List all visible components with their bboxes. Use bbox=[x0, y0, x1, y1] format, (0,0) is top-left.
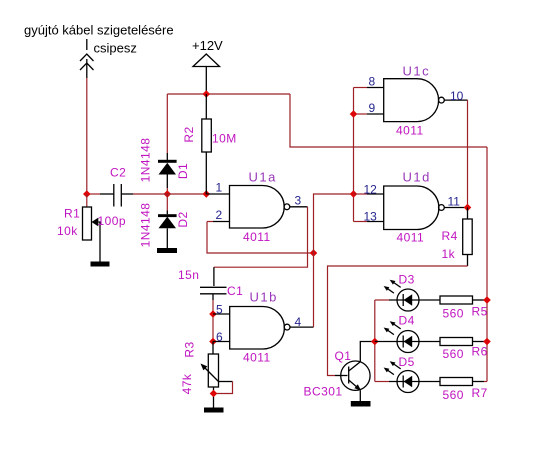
LED D4 bbox=[375, 321, 440, 352]
svg-text:csipesz: csipesz bbox=[94, 41, 137, 56]
svg-text:1N4148: 1N4148 bbox=[139, 138, 153, 183]
svg-text:15n: 15n bbox=[178, 268, 199, 282]
wire bbox=[166, 188, 168, 194]
pin 10 bbox=[444, 99, 467, 101]
potentiometer R3 47k bbox=[201, 342, 233, 408]
svg-text:1: 1 bbox=[216, 181, 223, 195]
wire: node to R2/U1a bbox=[133, 193, 206, 195]
wire: collector to LED cathode column bbox=[372, 341, 375, 343]
svg-text:11: 11 bbox=[448, 195, 461, 209]
svg-text:D2: D2 bbox=[176, 211, 190, 227]
wire: right-side +12V rail vertical bbox=[486, 147, 488, 382]
resistor R7 560 bbox=[440, 378, 487, 386]
junction R3 wiper bbox=[210, 390, 218, 398]
svg-text:U1c: U1c bbox=[403, 64, 431, 79]
resistor R5 560 bbox=[440, 296, 487, 304]
power +12V supply symbol bbox=[192, 38, 223, 94]
ground (R1 wiper) bbox=[91, 262, 110, 267]
svg-text:560: 560 bbox=[443, 347, 464, 361]
capacitor C2 100p bbox=[100, 184, 133, 207]
ground (D2) bbox=[157, 248, 177, 253]
svg-text:4: 4 bbox=[295, 315, 302, 329]
svg-text:560: 560 bbox=[443, 307, 464, 321]
svg-text:10M: 10M bbox=[212, 132, 237, 146]
junction pin 9 bbox=[350, 110, 358, 118]
svg-text:13: 13 bbox=[364, 210, 378, 224]
svg-text:D5: D5 bbox=[399, 355, 415, 369]
wire: input node horizontal bbox=[87, 193, 100, 195]
pin 4 bbox=[290, 326, 314, 328]
svg-text:5: 5 bbox=[216, 303, 223, 317]
ground (R3) bbox=[204, 408, 224, 413]
svg-text:4011: 4011 bbox=[397, 231, 425, 245]
svg-text:C2: C2 bbox=[110, 166, 126, 180]
ground (Q1 emitter) bbox=[351, 401, 371, 407]
svg-text:R1: R1 bbox=[64, 207, 80, 221]
pin 11 bbox=[444, 207, 467, 209]
junction pin11/R4 bbox=[464, 204, 472, 212]
svg-text:12: 12 bbox=[364, 182, 378, 196]
wire: C1 to U1b inputs bbox=[212, 300, 214, 342]
svg-text:47k: 47k bbox=[180, 373, 194, 394]
resistor R6 560 bbox=[440, 338, 487, 346]
pin 5 bbox=[213, 313, 230, 315]
svg-text:3: 3 bbox=[295, 194, 302, 208]
svg-text:10: 10 bbox=[450, 89, 464, 103]
pin 9 bbox=[354, 113, 368, 115]
svg-text:Q1: Q1 bbox=[335, 349, 352, 363]
svg-text:2: 2 bbox=[216, 208, 223, 222]
svg-text:R4: R4 bbox=[442, 229, 458, 243]
svg-text:D1: D1 bbox=[176, 163, 190, 179]
svg-text:R3: R3 bbox=[183, 341, 197, 357]
svg-text:U1d: U1d bbox=[403, 170, 431, 185]
svg-text:100p: 100p bbox=[98, 214, 127, 228]
svg-text:BC301: BC301 bbox=[304, 385, 343, 399]
svg-text:gyújtó kábel szigetelésére: gyújtó kábel szigetelésére bbox=[24, 23, 174, 38]
LED D5 bbox=[375, 361, 440, 392]
resistor R2 10M bbox=[202, 94, 212, 194]
svg-text:4011: 4011 bbox=[243, 350, 271, 364]
pin 1 bbox=[206, 193, 229, 195]
svg-text:R7: R7 bbox=[472, 386, 488, 400]
wire: U1c/U1d tied inputs vertical bbox=[353, 88, 355, 222]
wire: U1a pin3 to C1 bbox=[214, 207, 308, 267]
svg-text:C1: C1 bbox=[227, 284, 243, 298]
junction node D1/D2 bbox=[164, 190, 172, 198]
diode D2 1N4148 bbox=[158, 194, 177, 248]
svg-text:1k: 1k bbox=[442, 247, 456, 261]
junction R6/rail bbox=[483, 338, 491, 346]
diode D1 1N4148 bbox=[158, 160, 177, 188]
svg-text:D3: D3 bbox=[399, 273, 415, 287]
pin 8 bbox=[354, 87, 368, 89]
pin 6 bbox=[213, 341, 230, 343]
junction at clip/R1/C2 bbox=[83, 190, 91, 198]
clip (csipesz) pickup symbol bbox=[80, 39, 94, 78]
junction collector/LEDs bbox=[371, 338, 379, 346]
svg-text:10k: 10k bbox=[57, 224, 78, 238]
wire: U1a pin2 feedback bbox=[207, 222, 314, 254]
svg-text:U1a: U1a bbox=[249, 170, 277, 185]
wire: +12V rail horizontal bbox=[167, 93, 290, 95]
potentiometer R1 10k bbox=[83, 194, 101, 262]
op NAND gate U1d bbox=[384, 186, 445, 230]
svg-text:9: 9 bbox=[369, 101, 376, 115]
junction pin 12 bbox=[350, 190, 358, 198]
svg-text:8: 8 bbox=[369, 74, 376, 88]
transistor Q1 BC301 bbox=[341, 342, 372, 402]
svg-text:R6: R6 bbox=[472, 345, 488, 359]
svg-text:R5: R5 bbox=[472, 305, 488, 319]
svg-text:D4: D4 bbox=[399, 314, 415, 328]
op NAND gate U1b bbox=[230, 307, 290, 350]
wire: pin10 to pin11 node bbox=[467, 100, 469, 207]
junction pin5 bbox=[209, 310, 217, 318]
pin 3 bbox=[290, 206, 308, 208]
pin 12 bbox=[354, 193, 368, 195]
op NAND gate U1a bbox=[230, 186, 290, 229]
svg-text:4011: 4011 bbox=[243, 230, 271, 244]
svg-text:R2: R2 bbox=[182, 126, 196, 142]
wire: R4 to Q1 base bbox=[328, 266, 468, 376]
junction pin6 bbox=[209, 338, 217, 346]
svg-text:4011: 4011 bbox=[396, 124, 424, 138]
svg-text:U1b: U1b bbox=[250, 290, 278, 305]
svg-text:1N4148: 1N4148 bbox=[139, 203, 153, 248]
junction at R2 bottom bbox=[203, 190, 211, 198]
pin 13 bbox=[354, 221, 368, 223]
junction at +12V stem bbox=[203, 90, 211, 98]
wire: clip down to input node bbox=[86, 78, 88, 194]
LED D3 bbox=[375, 280, 440, 311]
svg-text:6: 6 bbox=[216, 330, 223, 344]
junction feedback/pin4 net bbox=[310, 249, 318, 257]
svg-text:560: 560 bbox=[443, 388, 464, 402]
pin 2 bbox=[213, 221, 230, 223]
capacitor C1 15n bbox=[200, 287, 227, 300]
junction R5/rail bbox=[483, 296, 491, 304]
resistor R4 1k bbox=[463, 208, 473, 267]
op NAND gate U1c bbox=[384, 79, 445, 122]
wire: rail right corner down bbox=[290, 94, 487, 147]
svg-text:+12V: +12V bbox=[192, 38, 223, 53]
wire: rail left down to D1 bbox=[166, 94, 168, 153]
wire: U1b output up to U1d inputs bbox=[314, 194, 354, 327]
